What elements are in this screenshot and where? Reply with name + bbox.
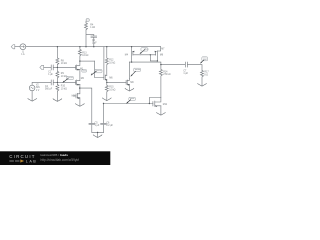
svg-text:R17: R17: [204, 72, 209, 74]
wire: [160, 106, 162, 115]
svg-text:M11: M11: [163, 104, 168, 106]
watermark bar: [0, 151, 110, 165]
transistor M3: [73, 88, 80, 106]
wire: [15, 46, 20, 48]
wire: [31, 91, 33, 101]
ground: [125, 88, 134, 91]
svg-text:R13: R13: [82, 52, 87, 54]
voltage source V2: [29, 85, 35, 91]
svg-text:1 µF: 1 µF: [48, 74, 53, 76]
ammeter callout D: [131, 68, 141, 76]
component labels: [21, 25, 209, 127]
ground: [102, 98, 111, 101]
svg-text:8 Ω: 8 Ω: [204, 74, 208, 76]
wire: [95, 61, 104, 77]
svg-text:R14: R14: [163, 71, 168, 73]
transistor M7: [156, 47, 161, 61]
ground: [93, 135, 102, 138]
wire: [44, 66, 51, 68]
resistor R10: [56, 85, 59, 92]
wire: [54, 66, 76, 68]
wire: [150, 55, 157, 61]
svg-text:1 V: 1 V: [36, 90, 40, 92]
resistor R17: [201, 70, 204, 85]
svg-text:10 kΩ: 10 kΩ: [109, 62, 115, 64]
node flag IN1: [11, 45, 15, 49]
wire bus: [26, 46, 161, 48]
svg-text:kairotest995 / loads: kairotest995 / loads: [41, 153, 69, 157]
wire: [80, 88, 92, 123]
wire: [79, 69, 81, 80]
node flag top: [86, 19, 89, 21]
node flag IN2: [40, 65, 44, 69]
capacitor C6: [101, 123, 107, 132]
resistor R12: [105, 47, 108, 76]
svg-text:http://circuitlab.com/c/59ykf: http://circuitlab.com/c/59ykf: [41, 158, 80, 162]
resistor R14: [159, 65, 162, 98]
wire: [106, 79, 108, 85]
wire: [128, 62, 130, 90]
resistor R4: [85, 23, 88, 30]
capacitor C4: [51, 80, 53, 85]
svg-text:R10: R10: [61, 86, 66, 88]
wire: [80, 60, 95, 62]
svg-text:10 kΩ: 10 kΩ: [109, 89, 115, 91]
svg-text:1 µF: 1 µF: [95, 125, 100, 127]
wire: [161, 64, 185, 66]
svg-text:10 kΩ: 10 kΩ: [61, 63, 67, 65]
wire gate tie: [140, 54, 156, 56]
resistor R13: [78, 47, 81, 61]
wire: [86, 30, 94, 47]
wire: [56, 78, 58, 85]
wire: [56, 65, 58, 72]
ground: [157, 112, 166, 115]
voltage callout C: [63, 76, 73, 82]
capacitor C5: [89, 123, 95, 132]
capacitor C2: [91, 35, 97, 47]
transistor M1: [76, 61, 80, 70]
svg-text:270 kΩ: 270 kΩ: [163, 74, 171, 76]
voltage callout E: [127, 97, 136, 103]
svg-text:10 kΩ: 10 kΩ: [82, 55, 88, 57]
wire: [32, 82, 51, 85]
resistor R15: [105, 85, 108, 100]
junction dots: [57, 46, 162, 133]
wire: [107, 81, 126, 83]
voltage callout F: [201, 57, 208, 63]
transistor M9: [126, 79, 129, 85]
current source I1: [20, 44, 26, 50]
ground: [198, 83, 207, 86]
wire: [85, 21, 87, 23]
transistor M6: [105, 75, 107, 80]
transistor M5: [132, 47, 141, 62]
wire: [56, 47, 58, 58]
wire: [104, 104, 153, 124]
wire: [103, 47, 105, 80]
svg-text:R15: R15: [109, 87, 114, 89]
capacitor C7: [185, 62, 187, 67]
wire: [56, 91, 58, 101]
svg-text:1 µF: 1 µF: [183, 73, 188, 75]
resistor R8: [56, 58, 59, 65]
wire: [54, 81, 76, 83]
svg-text:10 kΩ: 10 kΩ: [61, 88, 67, 90]
resistor R9: [56, 71, 59, 78]
svg-text:LAB: LAB: [26, 160, 37, 164]
transistor M2: [76, 80, 80, 85]
transistor M11: [149, 98, 161, 107]
svg-text:CIRCUIT: CIRCUIT: [9, 154, 36, 159]
voltage callout A: [91, 69, 102, 75]
wire: [92, 132, 104, 137]
svg-text:560 µF: 560 µF: [45, 88, 53, 90]
svg-text:2.2 µF: 2.2 µF: [106, 125, 113, 127]
svg-text:10 kΩ: 10 kΩ: [61, 76, 67, 78]
ground: [76, 104, 85, 107]
wire: [129, 62, 161, 65]
ground: [28, 98, 37, 101]
svg-text:1 kΩ: 1 kΩ: [90, 27, 95, 29]
svg-text:1 µF: 1 µF: [92, 43, 97, 45]
voltage callout G: [82, 70, 87, 73]
ground: [53, 99, 62, 102]
svg-text:1 A: 1 A: [21, 53, 25, 56]
wire: [79, 84, 81, 88]
svg-text:R12: R12: [109, 60, 114, 62]
wire: [188, 65, 202, 71]
ammeter callout B: [140, 48, 148, 54]
capacitor C1: [51, 65, 53, 70]
